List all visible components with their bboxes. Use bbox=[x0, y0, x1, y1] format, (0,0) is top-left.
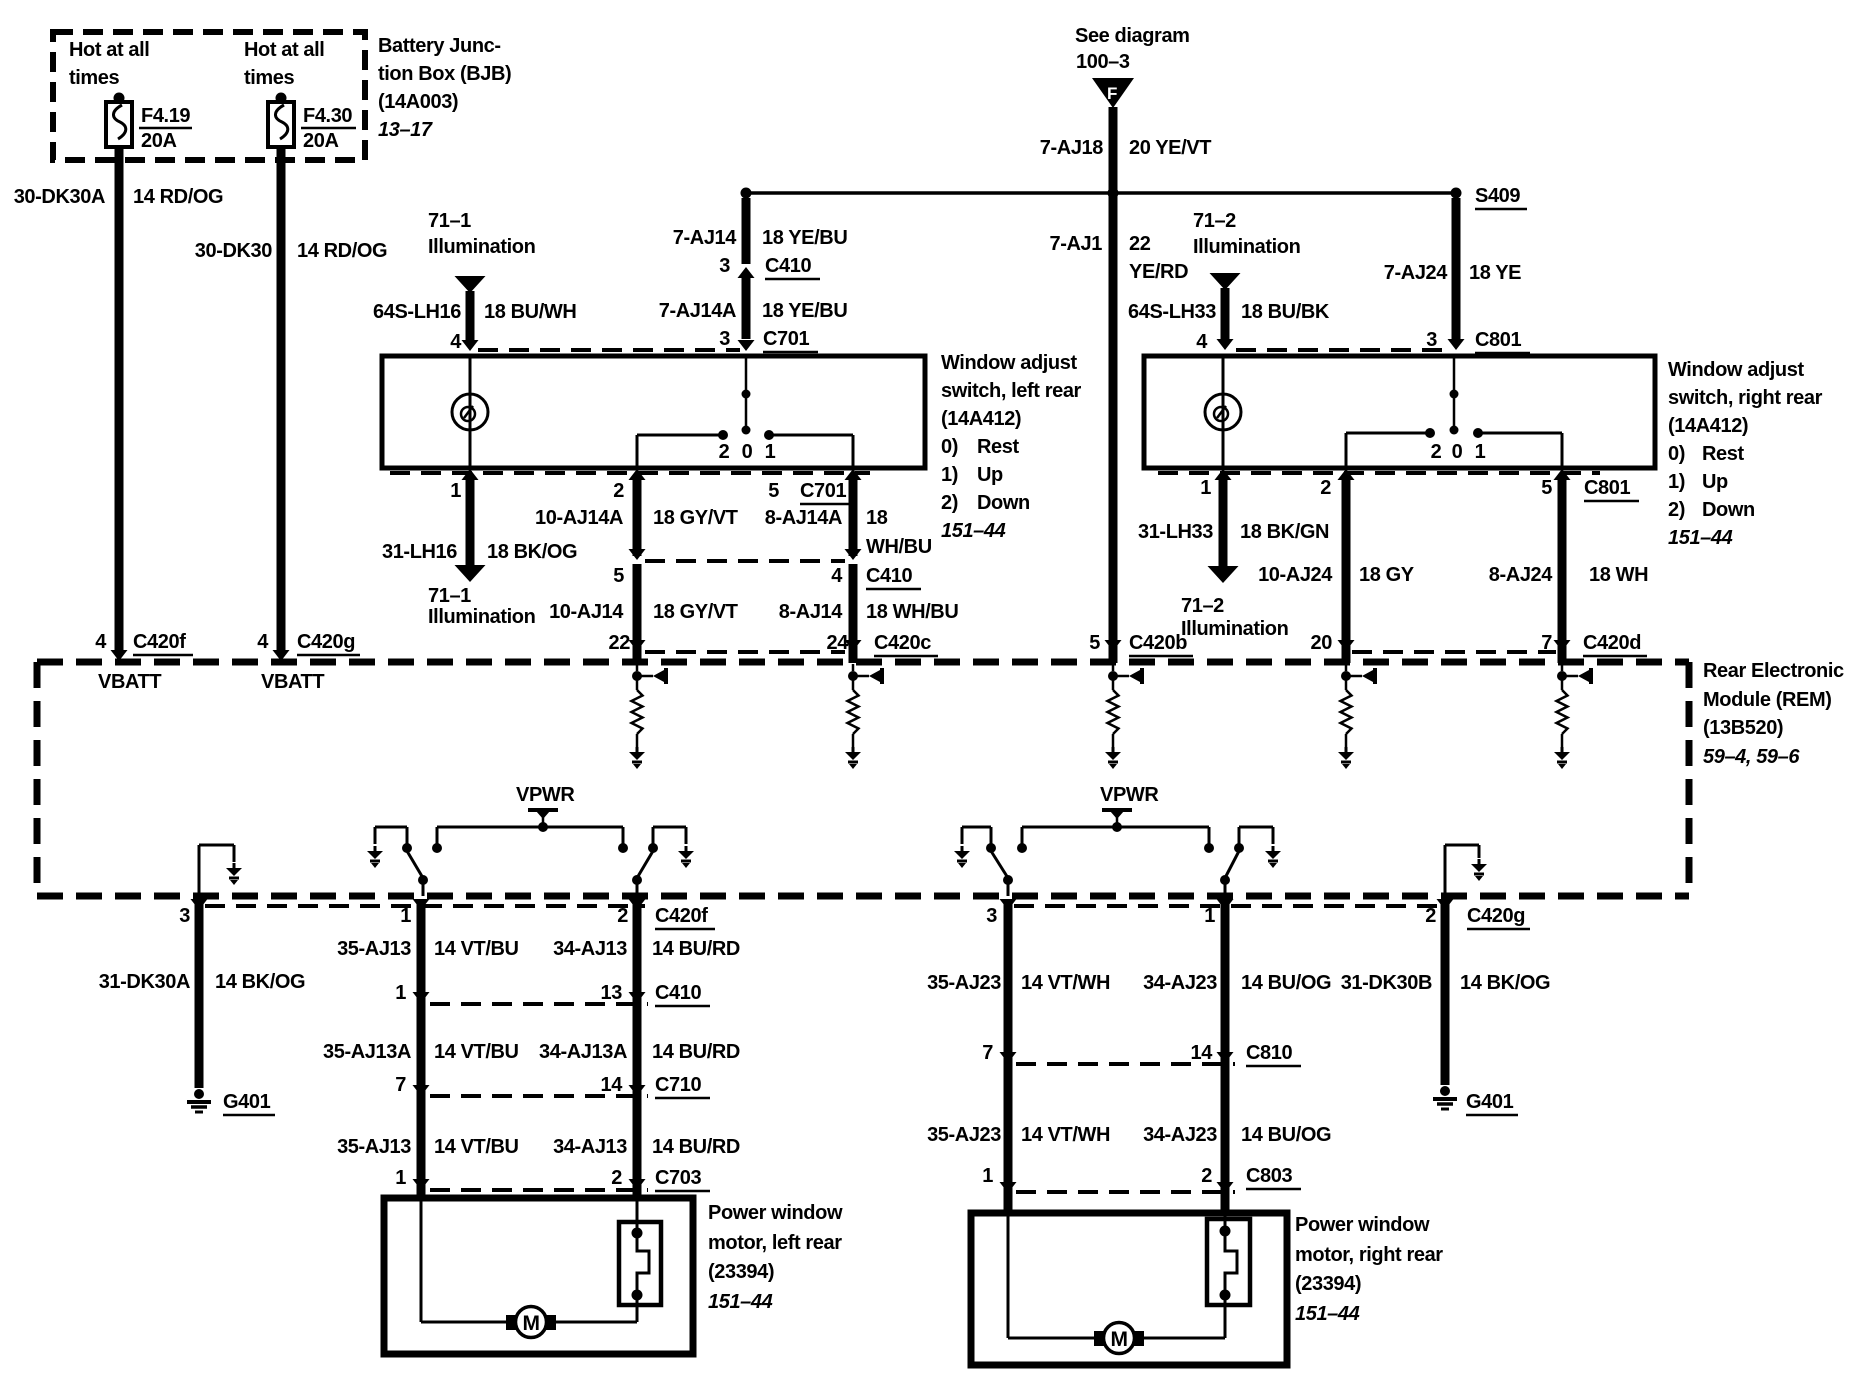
svg-text:1: 1 bbox=[395, 982, 406, 1004]
svg-text:100–3: 100–3 bbox=[1076, 51, 1130, 73]
svg-text:8-AJ14: 8-AJ14 bbox=[779, 601, 843, 623]
svg-text:7: 7 bbox=[982, 1042, 993, 1064]
svg-text:C701: C701 bbox=[800, 480, 846, 502]
svg-text:C710: C710 bbox=[655, 1074, 701, 1096]
svg-text:18: 18 bbox=[866, 507, 888, 529]
svg-text:C420c: C420c bbox=[874, 632, 931, 654]
svg-text:M: M bbox=[522, 1312, 539, 1335]
svg-text:F: F bbox=[1107, 84, 1117, 103]
svg-text:10-AJ24: 10-AJ24 bbox=[1258, 564, 1333, 586]
svg-text:4: 4 bbox=[95, 631, 107, 653]
svg-text:C803: C803 bbox=[1246, 1165, 1292, 1187]
svg-text:14 VT/BU: 14 VT/BU bbox=[434, 938, 519, 960]
svg-text:151–44: 151–44 bbox=[1295, 1303, 1360, 1325]
svg-text:7-AJ14A: 7-AJ14A bbox=[659, 300, 736, 322]
svg-text:14 BU/OG: 14 BU/OG bbox=[1241, 972, 1331, 994]
svg-text:30-DK30A: 30-DK30A bbox=[14, 186, 105, 208]
svg-text:Illumination: Illumination bbox=[1193, 236, 1300, 258]
svg-text:(23394): (23394) bbox=[708, 1261, 774, 1283]
svg-text:4: 4 bbox=[450, 331, 462, 353]
svg-text:8-AJ14A: 8-AJ14A bbox=[765, 507, 842, 529]
svg-text:1: 1 bbox=[1200, 477, 1211, 499]
svg-text:35-AJ13A: 35-AJ13A bbox=[323, 1041, 411, 1063]
svg-text:Window adjust: Window adjust bbox=[941, 352, 1077, 374]
svg-text:22: 22 bbox=[609, 632, 631, 654]
svg-text:31-LH33: 31-LH33 bbox=[1138, 521, 1213, 543]
svg-text:Hot at all: Hot at all bbox=[244, 39, 324, 61]
svg-text:C420f: C420f bbox=[655, 905, 708, 927]
svg-text:14 BU/RD: 14 BU/RD bbox=[652, 1041, 740, 1063]
svg-text:2: 2 bbox=[1425, 905, 1436, 927]
svg-text:1: 1 bbox=[395, 1167, 406, 1189]
svg-text:0): 0) bbox=[1668, 443, 1685, 465]
svg-text:0): 0) bbox=[941, 436, 958, 458]
svg-text:switch, right rear: switch, right rear bbox=[1668, 387, 1823, 409]
svg-text:VPWR: VPWR bbox=[516, 784, 575, 806]
svg-text:F4.30: F4.30 bbox=[303, 105, 352, 127]
svg-text:7-AJ24: 7-AJ24 bbox=[1384, 262, 1448, 284]
svg-text:G401: G401 bbox=[1466, 1091, 1514, 1113]
svg-text:3: 3 bbox=[719, 255, 730, 277]
svg-text:18 YE: 18 YE bbox=[1469, 262, 1521, 284]
svg-text:switch, left rear: switch, left rear bbox=[941, 380, 1082, 402]
svg-text:3: 3 bbox=[179, 905, 190, 927]
svg-text:times: times bbox=[244, 67, 295, 89]
svg-text:VBATT: VBATT bbox=[261, 671, 324, 693]
svg-text:31-LH16: 31-LH16 bbox=[382, 541, 457, 563]
svg-text:1: 1 bbox=[400, 905, 411, 927]
svg-text:Rear Electronic: Rear Electronic bbox=[1703, 660, 1844, 682]
svg-text:Window adjust: Window adjust bbox=[1668, 359, 1804, 381]
svg-text:F4.19: F4.19 bbox=[141, 105, 190, 127]
svg-text:1: 1 bbox=[982, 1165, 993, 1187]
svg-text:151–44: 151–44 bbox=[941, 520, 1006, 542]
svg-text:Illumination: Illumination bbox=[1181, 618, 1288, 640]
svg-text:5: 5 bbox=[1541, 477, 1552, 499]
svg-text:18 WH: 18 WH bbox=[1589, 564, 1648, 586]
svg-text:151–44: 151–44 bbox=[1668, 527, 1733, 549]
svg-text:C410: C410 bbox=[655, 982, 701, 1004]
svg-text:7-AJ1: 7-AJ1 bbox=[1050, 233, 1103, 255]
svg-text:YE/RD: YE/RD bbox=[1129, 261, 1188, 283]
svg-text:34-AJ13A: 34-AJ13A bbox=[539, 1041, 627, 1063]
svg-text:C703: C703 bbox=[655, 1167, 701, 1189]
svg-text:14 VT/BU: 14 VT/BU bbox=[434, 1136, 519, 1158]
svg-text:7: 7 bbox=[1541, 632, 1552, 654]
svg-text:4: 4 bbox=[831, 565, 843, 587]
svg-text:See diagram: See diagram bbox=[1075, 25, 1190, 47]
svg-text:14 BU/OG: 14 BU/OG bbox=[1241, 1124, 1331, 1146]
svg-text:30-DK30: 30-DK30 bbox=[195, 240, 273, 262]
svg-text:C810: C810 bbox=[1246, 1042, 1292, 1064]
svg-text:14 VT/BU: 14 VT/BU bbox=[434, 1041, 519, 1063]
svg-text:2: 2 bbox=[611, 1167, 622, 1189]
svg-text:4: 4 bbox=[257, 631, 269, 653]
svg-text:2: 2 bbox=[1431, 441, 1442, 463]
svg-text:10-AJ14: 10-AJ14 bbox=[549, 601, 624, 623]
svg-text:20 YE/VT: 20 YE/VT bbox=[1129, 137, 1211, 159]
svg-text:1): 1) bbox=[1668, 471, 1685, 493]
svg-text:0: 0 bbox=[1452, 441, 1463, 463]
svg-text:71–1: 71–1 bbox=[428, 210, 471, 232]
svg-text:35-AJ23: 35-AJ23 bbox=[927, 972, 1001, 994]
svg-text:Illumination: Illumination bbox=[428, 236, 535, 258]
svg-text:31-DK30B: 31-DK30B bbox=[1341, 972, 1432, 994]
svg-text:C410: C410 bbox=[866, 565, 912, 587]
svg-text:2: 2 bbox=[1201, 1165, 1212, 1187]
svg-text:5: 5 bbox=[768, 480, 779, 502]
svg-text:14 RD/OG: 14 RD/OG bbox=[297, 240, 387, 262]
svg-text:3: 3 bbox=[719, 328, 730, 350]
svg-text:Module (REM): Module (REM) bbox=[1703, 689, 1832, 711]
svg-text:18 GY/VT: 18 GY/VT bbox=[653, 507, 738, 529]
svg-text:VBATT: VBATT bbox=[98, 671, 161, 693]
svg-text:Battery Junc-: Battery Junc- bbox=[378, 35, 501, 57]
svg-text:2): 2) bbox=[941, 492, 958, 514]
svg-text:3: 3 bbox=[1426, 329, 1437, 351]
svg-text:WH/BU: WH/BU bbox=[866, 536, 932, 558]
svg-text:2): 2) bbox=[1668, 499, 1685, 521]
svg-text:(23394): (23394) bbox=[1295, 1273, 1361, 1295]
svg-text:24: 24 bbox=[827, 632, 850, 654]
svg-text:motor, left rear: motor, left rear bbox=[708, 1232, 842, 1254]
svg-text:8-AJ24: 8-AJ24 bbox=[1489, 564, 1553, 586]
svg-text:20A: 20A bbox=[303, 130, 339, 152]
svg-text:Rest: Rest bbox=[1702, 443, 1744, 465]
svg-text:3: 3 bbox=[986, 905, 997, 927]
svg-text:14 BK/OG: 14 BK/OG bbox=[1460, 972, 1550, 994]
svg-text:18 BK/OG: 18 BK/OG bbox=[487, 541, 577, 563]
svg-text:14: 14 bbox=[1191, 1042, 1214, 1064]
svg-text:14 VT/WH: 14 VT/WH bbox=[1021, 1124, 1110, 1146]
svg-text:0: 0 bbox=[742, 441, 753, 463]
svg-text:31-DK30A: 31-DK30A bbox=[99, 971, 190, 993]
svg-text:34-AJ13: 34-AJ13 bbox=[553, 938, 627, 960]
svg-text:18 BK/GN: 18 BK/GN bbox=[1240, 521, 1329, 543]
svg-text:20A: 20A bbox=[141, 130, 177, 152]
svg-text:Rest: Rest bbox=[977, 436, 1019, 458]
svg-text:Illumination: Illumination bbox=[428, 606, 535, 628]
svg-text:times: times bbox=[69, 67, 120, 89]
svg-text:7-AJ14: 7-AJ14 bbox=[673, 227, 737, 249]
svg-text:14 RD/OG: 14 RD/OG bbox=[133, 186, 223, 208]
svg-text:Up: Up bbox=[1702, 471, 1728, 493]
svg-text:14 BU/RD: 14 BU/RD bbox=[652, 938, 740, 960]
svg-text:C701: C701 bbox=[763, 328, 809, 350]
svg-text:18 GY: 18 GY bbox=[1359, 564, 1415, 586]
svg-text:14 BK/OG: 14 BK/OG bbox=[215, 971, 305, 993]
svg-text:Down: Down bbox=[1702, 499, 1755, 521]
svg-text:C410: C410 bbox=[765, 255, 811, 277]
svg-text:7: 7 bbox=[395, 1074, 406, 1096]
svg-text:motor, right rear: motor, right rear bbox=[1295, 1244, 1443, 1266]
svg-text:20: 20 bbox=[1311, 632, 1333, 654]
svg-text:Down: Down bbox=[977, 492, 1030, 514]
svg-text:18 YE/BU: 18 YE/BU bbox=[762, 227, 847, 249]
svg-text:G401: G401 bbox=[223, 1091, 271, 1113]
svg-text:2: 2 bbox=[617, 905, 628, 927]
svg-text:5: 5 bbox=[1089, 632, 1100, 654]
svg-text:64S-LH33: 64S-LH33 bbox=[1128, 301, 1216, 323]
svg-text:22: 22 bbox=[1129, 233, 1151, 255]
svg-text:34-AJ23: 34-AJ23 bbox=[1143, 972, 1217, 994]
svg-text:34-AJ13: 34-AJ13 bbox=[553, 1136, 627, 1158]
svg-text:5: 5 bbox=[613, 565, 624, 587]
svg-text:18 GY/VT: 18 GY/VT bbox=[653, 601, 738, 623]
svg-text:M: M bbox=[1110, 1328, 1127, 1351]
svg-text:(14A412): (14A412) bbox=[1668, 415, 1748, 437]
svg-text:18 YE/BU: 18 YE/BU bbox=[762, 300, 847, 322]
svg-text:1: 1 bbox=[765, 441, 776, 463]
svg-text:4: 4 bbox=[1196, 331, 1208, 353]
svg-text:18 BU/BK: 18 BU/BK bbox=[1241, 301, 1330, 323]
svg-text:C801: C801 bbox=[1584, 477, 1630, 499]
svg-text:C420f: C420f bbox=[133, 631, 186, 653]
svg-text:35-AJ13: 35-AJ13 bbox=[337, 1136, 411, 1158]
svg-text:71–2: 71–2 bbox=[1193, 210, 1236, 232]
svg-text:59–4, 59–6: 59–4, 59–6 bbox=[1703, 746, 1800, 768]
svg-text:2: 2 bbox=[719, 441, 730, 463]
svg-text:10-AJ14A: 10-AJ14A bbox=[535, 507, 623, 529]
svg-text:C420b: C420b bbox=[1129, 632, 1187, 654]
svg-text:35-AJ23: 35-AJ23 bbox=[927, 1124, 1001, 1146]
svg-text:2: 2 bbox=[613, 480, 624, 502]
svg-text:VPWR: VPWR bbox=[1100, 784, 1159, 806]
svg-text:14: 14 bbox=[601, 1074, 624, 1096]
svg-text:(14A003): (14A003) bbox=[378, 91, 458, 113]
svg-text:14 VT/WH: 14 VT/WH bbox=[1021, 972, 1110, 994]
svg-text:13: 13 bbox=[601, 982, 623, 1004]
svg-text:64S-LH16: 64S-LH16 bbox=[373, 301, 461, 323]
svg-text:18 BU/WH: 18 BU/WH bbox=[484, 301, 576, 323]
svg-text:C801: C801 bbox=[1475, 329, 1521, 351]
svg-text:1: 1 bbox=[1204, 905, 1215, 927]
svg-text:71–2: 71–2 bbox=[1181, 595, 1224, 617]
svg-text:(14A412): (14A412) bbox=[941, 408, 1021, 430]
svg-text:C420g: C420g bbox=[297, 631, 355, 653]
svg-text:151–44: 151–44 bbox=[708, 1291, 773, 1313]
svg-text:1: 1 bbox=[450, 480, 461, 502]
svg-text:tion Box (BJB): tion Box (BJB) bbox=[378, 63, 511, 85]
svg-text:13–17: 13–17 bbox=[378, 119, 433, 141]
svg-text:35-AJ13: 35-AJ13 bbox=[337, 938, 411, 960]
svg-text:C420d: C420d bbox=[1583, 632, 1641, 654]
svg-text:Power window: Power window bbox=[1295, 1214, 1430, 1236]
svg-text:1: 1 bbox=[1475, 441, 1486, 463]
svg-text:18 WH/BU: 18 WH/BU bbox=[866, 601, 958, 623]
svg-text:1): 1) bbox=[941, 464, 958, 486]
svg-text:7-AJ18: 7-AJ18 bbox=[1040, 137, 1103, 159]
svg-text:34-AJ23: 34-AJ23 bbox=[1143, 1124, 1217, 1146]
svg-text:Up: Up bbox=[977, 464, 1003, 486]
svg-text:Power window: Power window bbox=[708, 1202, 843, 1224]
svg-text:2: 2 bbox=[1320, 477, 1331, 499]
svg-text:Hot at all: Hot at all bbox=[69, 39, 149, 61]
svg-text:71–1: 71–1 bbox=[428, 585, 471, 607]
svg-text:(13B520): (13B520) bbox=[1703, 717, 1783, 739]
svg-text:14 BU/RD: 14 BU/RD bbox=[652, 1136, 740, 1158]
svg-text:C420g: C420g bbox=[1467, 905, 1525, 927]
svg-text:S409: S409 bbox=[1475, 185, 1520, 207]
